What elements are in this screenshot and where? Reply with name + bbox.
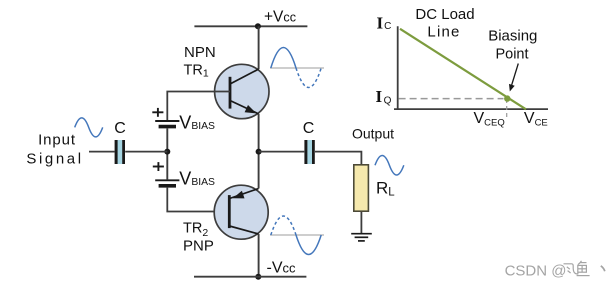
- wire: output capacitor to load RL: [315, 152, 361, 165]
- TR2 output half-wave: positive dashed: [271, 216, 296, 235]
- wire: +Vcc top rail: [194, 25, 307, 27]
- graph: biasing point dot: [504, 95, 510, 101]
- node: input junction dot: [164, 149, 170, 155]
- graph: dashed IQ level line: [399, 98, 504, 100]
- ground: [351, 234, 372, 241]
- capacitor C (input coupling): [116, 140, 124, 164]
- TR2 output half-wave: negative solid: [296, 235, 321, 255]
- battery VBIAS (upper): plus sign: [152, 108, 163, 117]
- svg-text:NPN: NPN: [184, 44, 216, 61]
- svg-text:Output: Output: [352, 126, 394, 142]
- svg-text:Q: Q: [384, 96, 392, 107]
- transistor TR2 (PNP): [214, 185, 268, 239]
- TR2 output half-wave: axis: [270, 234, 324, 236]
- TR1 output half-wave: negative dashed: [296, 68, 321, 88]
- node: junction dot on -Vcc rail: [255, 274, 261, 280]
- graph: DC load line: [400, 29, 526, 110]
- capacitor C (output coupling): [306, 140, 314, 164]
- svg-text:Line: Line: [427, 24, 460, 41]
- svg-text:Biasing: Biasing: [488, 28, 537, 45]
- battery VBIAS (upper): plates: [155, 121, 179, 127]
- svg-text:CSDN @: CSDN @: [505, 263, 567, 280]
- svg-text:Signal: Signal: [26, 150, 83, 167]
- battery VBIAS (lower): plus sign: [153, 162, 164, 171]
- wire: TR1 emitter to output node to TR2 emitter: [258, 114, 260, 189]
- svg-text:C: C: [384, 21, 391, 32]
- svg-text:-Vcc: -Vcc: [267, 259, 297, 276]
- watermark glyph fei: [564, 264, 579, 274]
- svg-text:C: C: [303, 120, 315, 137]
- battery VBIAS (lower): plates: [155, 180, 179, 186]
- svg-text:I: I: [376, 87, 383, 106]
- svg-text:DC Load: DC Load: [415, 6, 474, 23]
- wire: TR2 collector to -Vcc rail: [258, 234, 260, 277]
- svg-text:+Vcc: +Vcc: [264, 8, 296, 25]
- wire: upper battery to input node to lower battery: [166, 128, 168, 179]
- output sine wave: [375, 156, 404, 176]
- svg-text:C: C: [114, 120, 126, 137]
- wire: input signal to capacitor C (input): [89, 151, 115, 153]
- wire: TR1 base wire: [167, 92, 230, 121]
- wire: RL to ground: [360, 212, 362, 233]
- svg-text:Input: Input: [38, 132, 76, 149]
- wire: lower battery to TR2 base: [167, 188, 229, 212]
- svg-text:Point: Point: [495, 47, 528, 63]
- transistor TR1 (NPN): [215, 64, 269, 118]
- node: output junction dot: [256, 149, 262, 155]
- graph: IC axis (vertical): [397, 26, 399, 110]
- wire: output node to capacitor C (output): [259, 151, 305, 153]
- wire: -Vcc bottom rail: [194, 276, 306, 278]
- svg-text:I: I: [377, 13, 384, 32]
- input sine wave: [75, 118, 103, 137]
- graph: biasing point arrow: [509, 64, 518, 92]
- TR1 output half-wave: positive solid: [271, 48, 296, 69]
- resistor RL: [354, 165, 369, 211]
- graph: dashed VCEQ drop line: [506, 99, 508, 119]
- watermark glyph dot: [601, 266, 605, 271]
- graph: VCE axis (horizontal): [394, 108, 548, 110]
- svg-text:PNP: PNP: [183, 238, 214, 255]
- node: junction dot on +Vcc rail: [255, 23, 261, 29]
- TR1 output half-wave: axis: [270, 67, 324, 69]
- wire: +Vcc rail to TR1 collector: [258, 26, 260, 69]
- watermark glyph yu: [577, 261, 590, 276]
- wire: input capacitor to input node: [125, 151, 167, 153]
